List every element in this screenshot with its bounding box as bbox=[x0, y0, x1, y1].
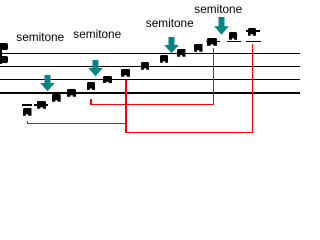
note 7 bbox=[121, 69, 130, 77]
red bracket A horizontal bbox=[27, 123, 127, 124]
label semitone 1 bbox=[16, 32, 64, 44]
note 1 bbox=[23, 108, 32, 116]
note 10 bbox=[177, 49, 186, 57]
label semitone 4 bbox=[194, 4, 242, 16]
red right vertical (under note 14) bbox=[252, 44, 253, 134]
ledger line above staff (through note 12) bbox=[206, 41, 221, 42]
note 6 bbox=[103, 76, 112, 84]
note 14 bbox=[248, 28, 257, 36]
ledger line below staff (under note 1) bbox=[22, 104, 33, 106]
staff line 4 (bottom) bbox=[0, 92, 300, 94]
note 5 bbox=[87, 82, 96, 90]
ledger line above staff (under note 14) bbox=[246, 41, 261, 42]
red bracket A left leg (under note 1) bbox=[27, 121, 28, 125]
note 3 bbox=[52, 94, 61, 102]
teal arrow 2 bbox=[88, 60, 103, 77]
ledger line below staff (through note 2) bbox=[34, 104, 48, 106]
red bracket B right leg (under note 12) bbox=[213, 48, 214, 106]
teal arrow 4 bbox=[214, 17, 229, 36]
note 12 bbox=[207, 38, 217, 46]
red bracket B left leg (under note 5) bbox=[90, 99, 91, 106]
upper ledger line (through note 14) bbox=[246, 30, 260, 32]
note 13 bbox=[229, 32, 237, 40]
note 8 bbox=[141, 62, 150, 70]
label semitone 2 bbox=[73, 29, 121, 41]
staff line 2 bbox=[0, 66, 300, 67]
teal arrow 1 bbox=[40, 75, 55, 92]
red bracket B horizontal bbox=[90, 104, 214, 105]
note 11 bbox=[194, 44, 203, 52]
staff line 1 (top) bbox=[0, 53, 300, 54]
label semitone 3 bbox=[146, 18, 194, 30]
staff line 3 bbox=[0, 79, 300, 80]
note 4 bbox=[67, 89, 76, 97]
red bracket C horizontal (bottom) bbox=[125, 132, 253, 133]
red shared vertical (under note 7) bbox=[125, 80, 126, 133]
note 9 bbox=[160, 55, 169, 63]
left edge bracket (clef fragment) bbox=[0, 43, 8, 64]
teal arrow 3 bbox=[164, 37, 179, 54]
note 2 bbox=[37, 101, 47, 109]
ledger line above staff (under note 13) bbox=[227, 41, 242, 42]
